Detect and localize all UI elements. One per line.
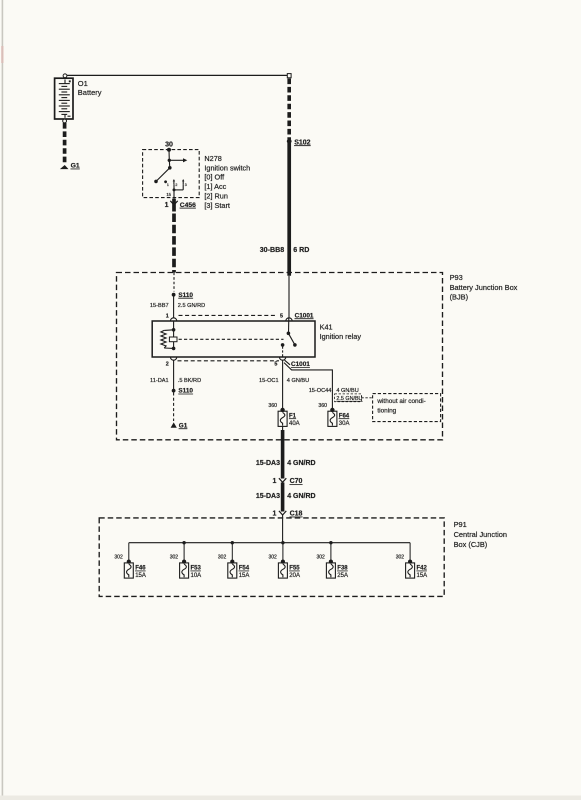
svg-text:360: 360 bbox=[268, 403, 277, 409]
wire S110 to G1 (dashed) bbox=[173, 393, 175, 422]
BJB labels bbox=[450, 273, 518, 301]
wire S110 to relay pin 1 bbox=[173, 297, 175, 318]
ignition switch labels bbox=[204, 154, 250, 210]
svg-text:K41: K41 bbox=[320, 323, 333, 332]
ground G1 bbox=[60, 165, 69, 169]
svg-text:4 GN/RD: 4 GN/RD bbox=[287, 460, 315, 467]
alternate wire 2.5 GN/BU dashed box bbox=[335, 394, 363, 402]
node at F1 top bbox=[280, 408, 284, 412]
svg-text:F55: F55 bbox=[289, 566, 300, 572]
CJB bus bbox=[129, 542, 410, 544]
svg-text:302: 302 bbox=[396, 554, 405, 560]
svg-text:30A: 30A bbox=[339, 421, 350, 427]
ground G1 (BJB) bbox=[171, 422, 177, 427]
svg-text:30-BB8: 30-BB8 bbox=[260, 246, 284, 254]
svg-text:[3] Start: [3] Start bbox=[204, 201, 230, 210]
BJB box P93 bbox=[117, 273, 443, 440]
svg-text:Ignition relay: Ignition relay bbox=[320, 332, 362, 341]
splice S110 lower bbox=[172, 389, 176, 393]
svg-text:2.5 GN/RD: 2.5 GN/RD bbox=[178, 303, 205, 309]
svg-text:302: 302 bbox=[170, 554, 179, 560]
svg-text:2: 2 bbox=[175, 183, 177, 187]
svg-text:(BJB): (BJB) bbox=[450, 292, 468, 301]
svg-text:S102: S102 bbox=[294, 139, 310, 146]
svg-text:11-DA1: 11-DA1 bbox=[150, 378, 169, 384]
svg-text:15A: 15A bbox=[417, 573, 428, 579]
svg-text:302: 302 bbox=[218, 554, 227, 560]
svg-text:S110: S110 bbox=[178, 388, 193, 395]
wire BJB entry to S110 (thin dashed) bbox=[173, 273, 175, 292]
svg-text:F54: F54 bbox=[239, 566, 250, 572]
fuse F54 bbox=[218, 554, 250, 579]
splice S102 bbox=[287, 139, 292, 144]
svg-text:C456: C456 bbox=[180, 202, 196, 209]
svg-text:F64: F64 bbox=[339, 413, 350, 419]
svg-text:F42: F42 bbox=[417, 566, 428, 572]
svg-text:302: 302 bbox=[114, 554, 123, 560]
svg-text:Box (CJB): Box (CJB) bbox=[454, 540, 488, 549]
svg-text:360: 360 bbox=[318, 403, 327, 409]
dashed leader to note box bbox=[361, 397, 372, 399]
svg-text:C18: C18 bbox=[290, 511, 303, 518]
svg-text:tioning: tioning bbox=[377, 407, 396, 414]
fuse F53 bbox=[170, 554, 202, 579]
svg-text:P91: P91 bbox=[454, 520, 467, 529]
wire battery to S102 (horizontal) bbox=[67, 74, 287, 76]
svg-text:2.5 GN/BU: 2.5 GN/BU bbox=[336, 396, 362, 402]
svg-text:25A: 25A bbox=[337, 573, 348, 579]
wire F1 to C70 (thick) bbox=[282, 426, 284, 430]
svg-text:F38: F38 bbox=[337, 566, 348, 572]
svg-text:15-OC1: 15-OC1 bbox=[259, 378, 279, 384]
svg-text:2: 2 bbox=[166, 361, 169, 367]
wire relay pin2 to S110 lower bbox=[173, 360, 175, 389]
battery O1 bbox=[55, 74, 73, 123]
wire fusible link (thick dashed) to S102 bbox=[287, 79, 291, 140]
svg-text:10A: 10A bbox=[191, 573, 202, 579]
relay K41 box bbox=[152, 321, 315, 357]
svg-text:4 GN/RD: 4 GN/RD bbox=[287, 493, 315, 500]
svg-text:without air condi-: without air condi- bbox=[376, 398, 425, 405]
fuse F42 bbox=[396, 554, 428, 579]
relay contact blade bbox=[281, 318, 297, 357]
svg-text:1: 1 bbox=[166, 313, 169, 319]
svg-text:[0] Off: [0] Off bbox=[204, 173, 225, 182]
svg-text:6 RD: 6 RD bbox=[293, 246, 309, 254]
relay pin 5 arc bbox=[286, 318, 292, 321]
splice S110 bbox=[172, 293, 176, 297]
svg-text:N278: N278 bbox=[204, 154, 221, 163]
svg-text:15: 15 bbox=[166, 192, 171, 197]
connector C18 symbol bbox=[279, 511, 286, 515]
svg-text:4 GN/BU: 4 GN/BU bbox=[287, 378, 309, 384]
svg-text:15-DA3: 15-DA3 bbox=[256, 460, 280, 467]
branch wires to fuses bbox=[129, 543, 410, 560]
svg-text:5: 5 bbox=[274, 361, 277, 367]
node at F64 top bbox=[330, 408, 334, 412]
fuse F38 bbox=[317, 554, 349, 579]
svg-text:15A: 15A bbox=[135, 573, 146, 579]
svg-text:1: 1 bbox=[272, 478, 276, 485]
relay pin 1 arc bbox=[170, 318, 176, 321]
svg-text:15A: 15A bbox=[239, 573, 250, 579]
wire C18 into CJB bbox=[282, 514, 284, 543]
svg-text:1: 1 bbox=[272, 511, 276, 518]
svg-text:[2] Run: [2] Run bbox=[204, 192, 228, 201]
svg-text:302: 302 bbox=[317, 554, 326, 560]
svg-text:G1: G1 bbox=[179, 422, 188, 429]
bus junction nodes bbox=[182, 541, 332, 544]
svg-text:30: 30 bbox=[165, 142, 173, 149]
svg-text:C70: C70 bbox=[290, 478, 303, 485]
fuse F46 bbox=[114, 554, 146, 579]
wire relay output to F1 bbox=[282, 360, 284, 408]
fuse F55 bbox=[269, 554, 301, 579]
fuse F64 bbox=[328, 411, 337, 426]
svg-text:G1: G1 bbox=[71, 163, 80, 170]
relay coil bbox=[161, 321, 177, 350]
svg-text:3: 3 bbox=[185, 183, 187, 187]
wire C70 to C18 (thick) bbox=[281, 483, 285, 512]
svg-text:Ignition switch: Ignition switch bbox=[204, 163, 250, 172]
connector square at top of feed wire bbox=[287, 74, 291, 78]
svg-text:Central Junction: Central Junction bbox=[454, 530, 507, 539]
relay pin 2 arc bbox=[170, 357, 176, 360]
wire branch to F64 bbox=[284, 363, 332, 408]
svg-text:15-BB7: 15-BB7 bbox=[150, 303, 169, 309]
svg-text:O1: O1 bbox=[78, 79, 88, 88]
pin rail dashed (bottom) bbox=[178, 360, 280, 362]
ignition switch N278 box bbox=[143, 150, 200, 198]
CJB box P91 bbox=[99, 518, 444, 597]
svg-text:F1: F1 bbox=[289, 413, 297, 419]
connector C1001 bottom leader bbox=[285, 360, 290, 365]
connector C70 symbol bbox=[279, 478, 286, 482]
svg-text:1: 1 bbox=[167, 183, 169, 187]
svg-text:F53: F53 bbox=[191, 566, 202, 572]
svg-text:F46: F46 bbox=[135, 566, 146, 572]
fuse F1 bbox=[278, 411, 287, 426]
relay actuator dashed line bbox=[179, 338, 284, 340]
svg-text:S110: S110 bbox=[178, 292, 193, 299]
svg-text:1: 1 bbox=[165, 202, 169, 209]
relay pin 5 bottom arc bbox=[279, 357, 285, 360]
connector C456 symbol bbox=[170, 201, 177, 205]
svg-text:40A: 40A bbox=[289, 421, 300, 427]
without air conditioning note box bbox=[373, 394, 441, 422]
svg-text:.5 BK/RD: .5 BK/RD bbox=[178, 378, 201, 384]
svg-text:Battery: Battery bbox=[78, 88, 102, 97]
svg-text:15-OC44: 15-OC44 bbox=[309, 388, 332, 394]
svg-text:P93: P93 bbox=[450, 273, 463, 282]
svg-text:15-DA3: 15-DA3 bbox=[256, 493, 280, 500]
svg-text:C1001: C1001 bbox=[295, 312, 314, 319]
wire BJB entry to relay pin 5 bbox=[288, 276, 290, 318]
svg-text:4 GN/BU: 4 GN/BU bbox=[336, 388, 358, 394]
pin rail dashed (top) bbox=[179, 314, 278, 316]
svg-text:C1001: C1001 bbox=[291, 361, 310, 368]
CJB labels bbox=[454, 520, 507, 549]
ignition switch internals bbox=[154, 148, 187, 199]
svg-text:Battery Junction Box: Battery Junction Box bbox=[450, 283, 518, 292]
wire S102 to BJB (thick) bbox=[287, 143, 291, 276]
svg-text:[1] Acc: [1] Acc bbox=[204, 182, 226, 191]
wire battery to ground (thick dashed) bbox=[63, 123, 67, 164]
svg-text:5: 5 bbox=[280, 313, 283, 319]
svg-text:302: 302 bbox=[269, 554, 278, 560]
svg-text:20A: 20A bbox=[289, 573, 300, 579]
wire C456 to BJB (thick then dashed) bbox=[172, 199, 176, 212]
